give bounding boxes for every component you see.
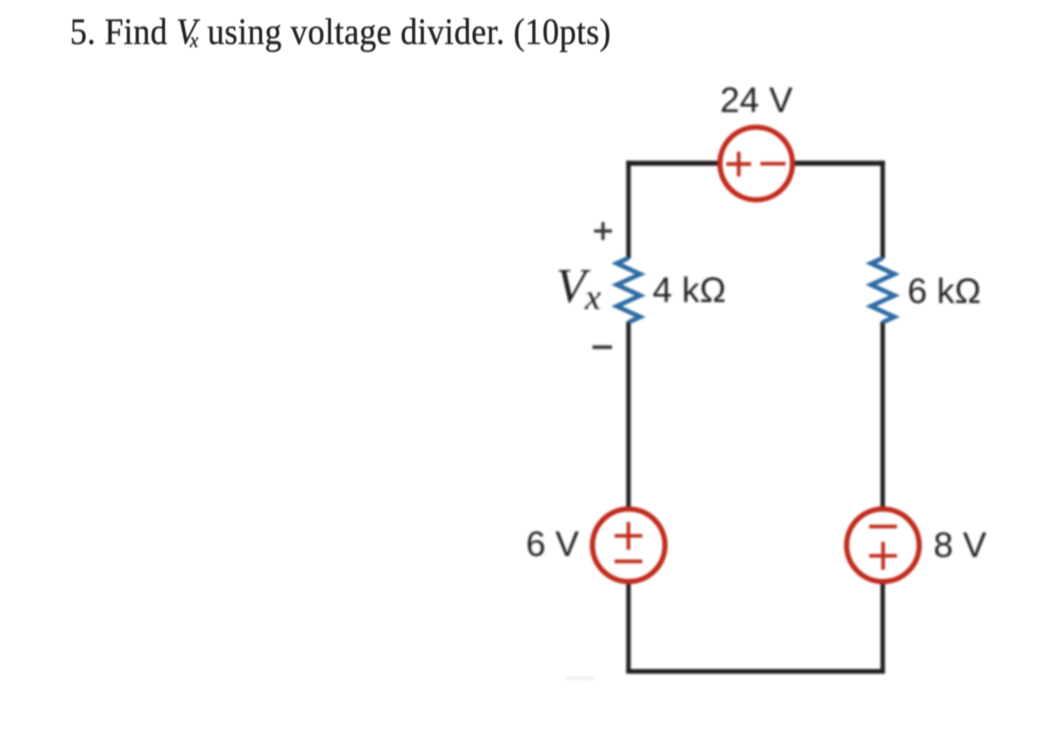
voltage source V3 8V (bottom right) [847, 509, 920, 582]
resistor R1 4k (left) [617, 258, 640, 322]
label Vx [556, 258, 601, 317]
label 8 V [934, 526, 987, 565]
svg-text:24 V: 24 V [720, 81, 793, 120]
faint scan artifact [566, 676, 594, 680]
svg-text:8 V: 8 V [934, 526, 987, 565]
wire bottom [626, 669, 885, 674]
minus polarity mark for Vx [593, 345, 613, 349]
svg-text:x: x [584, 277, 601, 317]
label 6 V [526, 525, 579, 564]
wire right branch lower [880, 545, 885, 674]
voltage source V1 24V (top) [720, 127, 793, 200]
title text [70, 11, 611, 54]
wire top (node between V1 and branches) [626, 161, 885, 166]
wire right branch upper [880, 161, 885, 259]
resistor R2 6k (right) [871, 258, 894, 322]
plus polarity mark for Vx [594, 222, 612, 240]
wire left branch upper [626, 161, 631, 259]
label 24 V [720, 81, 793, 120]
wire left branch middle [626, 322, 631, 546]
wire right branch middle [880, 322, 885, 546]
svg-text:4 kΩ: 4 kΩ [653, 271, 726, 310]
label 6 kOhm [908, 272, 981, 311]
voltage source V2 6V (bottom left) [592, 509, 665, 582]
svg-text:6 kΩ: 6 kΩ [908, 272, 981, 311]
wire left branch lower [626, 545, 631, 674]
label 4 kOhm [653, 271, 726, 310]
svg-text:6 V: 6 V [526, 525, 579, 564]
